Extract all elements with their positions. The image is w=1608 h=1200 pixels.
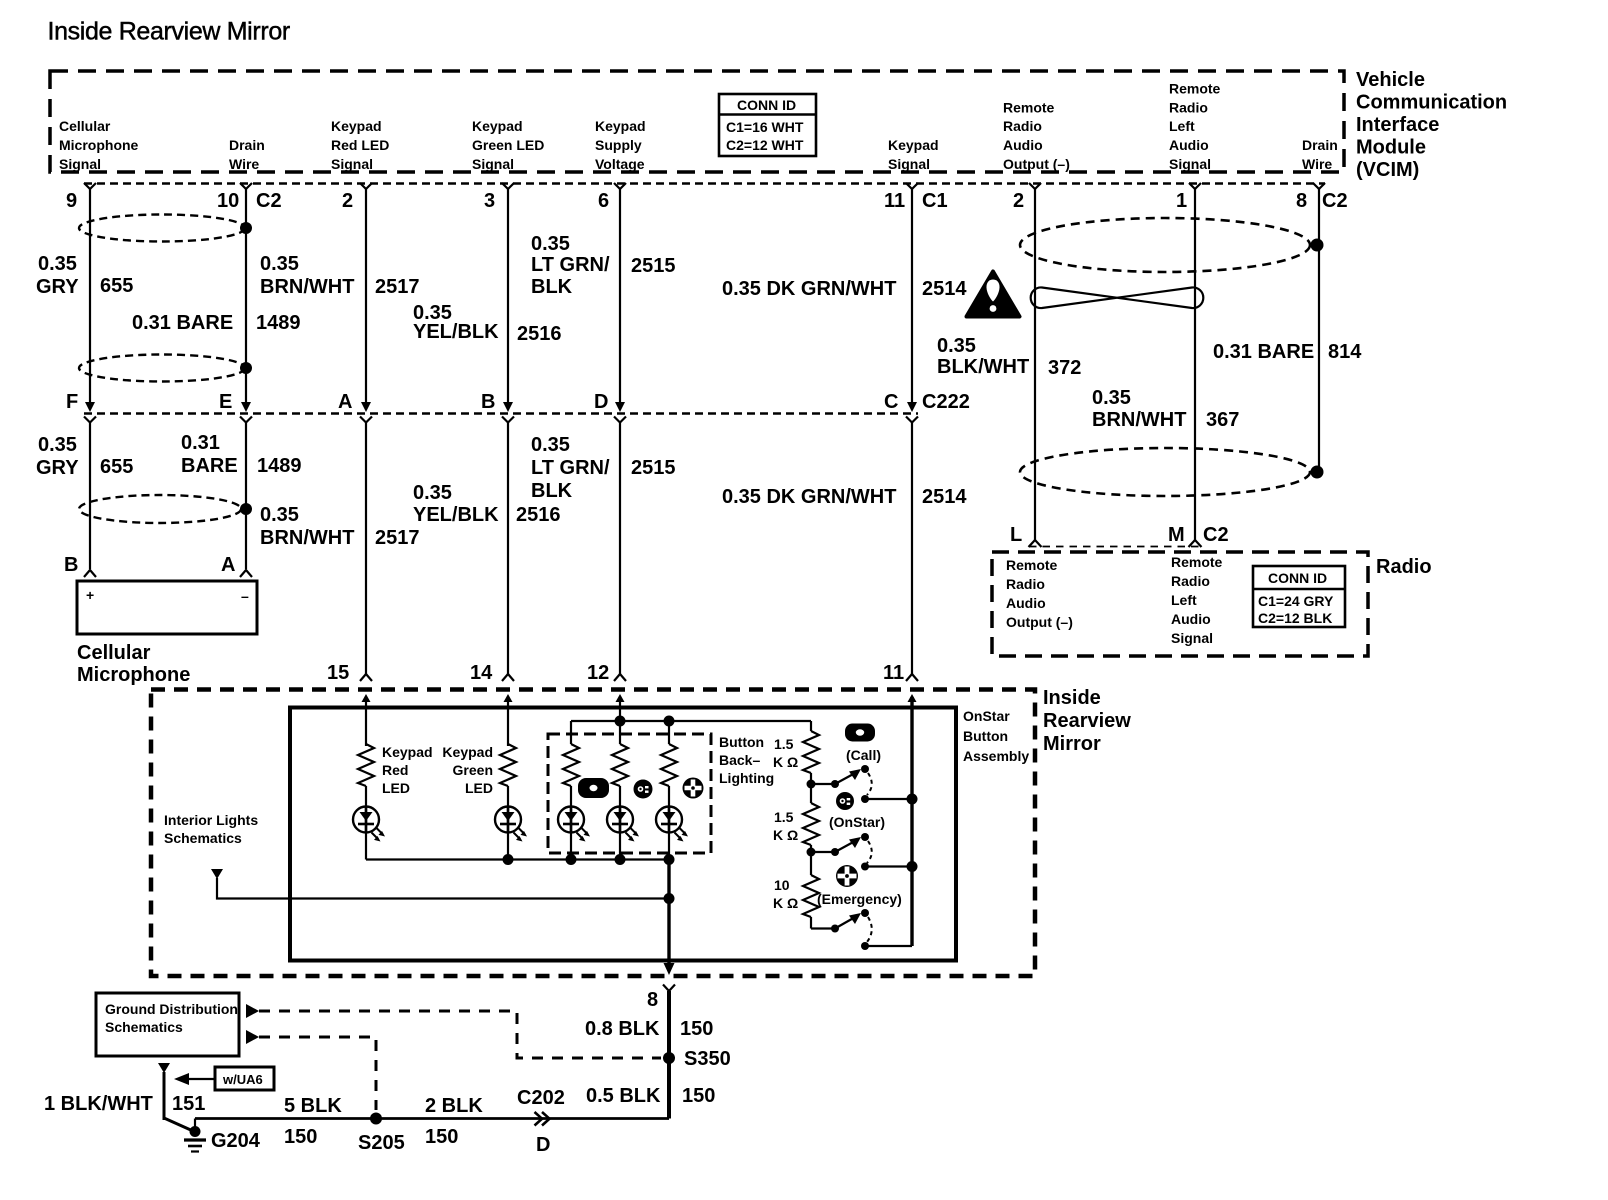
junction dot (807, 848, 816, 857)
svg-text:150: 150 (425, 1126, 458, 1148)
connector C202 (535, 1112, 550, 1126)
interior lights wire (217, 878, 669, 899)
svg-text:Inside Rearview Mirror: Inside Rearview Mirror (48, 18, 290, 46)
svg-text:Audio: Audio (1006, 595, 1046, 611)
IRM pin row (327, 662, 904, 684)
switch call (811, 765, 918, 805)
resistor backlight 3 (661, 744, 677, 786)
VCIM label Vehicle Communication Interface Module (1356, 69, 1507, 181)
svg-text:Keypad: Keypad (442, 744, 493, 760)
Interior Lights Schematics label (164, 812, 258, 846)
svg-text:Remote: Remote (1003, 100, 1055, 116)
C222 in-line connector dashed line (84, 412, 918, 415)
svg-text:2514: 2514 (922, 486, 967, 508)
svg-text:BLK: BLK (531, 480, 573, 502)
resistor chain 1.5K top (803, 731, 819, 773)
svg-text:Lighting: Lighting (719, 770, 774, 786)
svg-text:CONN ID: CONN ID (737, 97, 796, 113)
svg-text:Red LED: Red LED (331, 137, 389, 153)
svg-text:w/UA6: w/UA6 (222, 1072, 263, 1087)
drain junction dot pin8 (1311, 239, 1324, 252)
svg-text:Mirror: Mirror (1043, 733, 1101, 755)
svg-text:2517: 2517 (375, 276, 420, 298)
svg-text:Signal: Signal (888, 156, 930, 172)
svg-text:Communication: Communication (1356, 92, 1507, 114)
svg-text:(Emergency): (Emergency) (817, 891, 902, 907)
OnStar Button Assembly label (963, 708, 1029, 764)
svg-text:B: B (64, 554, 78, 576)
dashed ref line 2 to S205 (259, 1037, 376, 1110)
mic terminal letters (64, 554, 235, 576)
svg-text:Schematics: Schematics (164, 830, 242, 846)
svg-text:150: 150 (284, 1126, 317, 1148)
svg-text:–: – (241, 588, 249, 604)
svg-text:150: 150 (680, 1018, 713, 1040)
wire 2515 lower (619, 423, 621, 675)
svg-text:L: L (1010, 524, 1022, 546)
svg-text:BLK/WHT: BLK/WHT (937, 356, 1029, 378)
LED backlight 3 (668, 786, 670, 859)
interior lights tap arrow (211, 869, 223, 879)
svg-text:G204: G204 (211, 1130, 261, 1152)
svg-text:Schematics: Schematics (105, 1019, 183, 1035)
wire 2514 pin11 upper (911, 189, 913, 404)
svg-text:2516: 2516 (517, 323, 562, 345)
svg-text:1489: 1489 (257, 455, 302, 477)
wire 1489 drain pin10 upper (245, 189, 247, 404)
svg-text:9: 9 (66, 190, 77, 212)
svg-text:Button: Button (719, 734, 764, 750)
shield ellipse upper right (1020, 218, 1310, 272)
svg-text:(Call): (Call) (846, 747, 881, 763)
C222 forks below (84, 417, 918, 423)
C222 terminal letters (66, 391, 970, 413)
wire 367 pin1 (1194, 189, 1196, 540)
resistor backlight 1 (563, 744, 579, 786)
exit arrowhead (664, 963, 675, 975)
call button icon (845, 724, 875, 742)
radio pin labels (1006, 554, 1223, 646)
svg-text:LT GRN/: LT GRN/ (531, 254, 610, 276)
svg-text:Radio: Radio (1006, 576, 1045, 592)
switch onstar (811, 833, 918, 872)
wire 2517 pin2 upper (365, 189, 367, 404)
svg-text:Left: Left (1171, 592, 1197, 608)
svg-text:Microphone: Microphone (77, 664, 190, 686)
backlight icon emergency (683, 778, 704, 799)
svg-text:Interior Lights: Interior Lights (164, 812, 258, 828)
svg-text:LT GRN/: LT GRN/ (531, 457, 610, 479)
dashed ref line 1 to S350 (259, 1011, 661, 1058)
svg-text:Wire: Wire (1302, 156, 1332, 172)
svg-text:14: 14 (470, 662, 493, 684)
svg-text:150: 150 (682, 1085, 715, 1107)
mic terminal forks (84, 570, 252, 577)
svg-text:(VCIM): (VCIM) (1356, 159, 1419, 181)
LED keypad green (507, 786, 509, 833)
svg-text:Back–: Back– (719, 752, 760, 768)
w/UA6 tag (174, 1067, 274, 1090)
wire 655 lower (89, 423, 91, 570)
svg-text:C202: C202 (517, 1087, 565, 1109)
svg-text:Drain: Drain (229, 137, 265, 153)
svg-text:Assembly: Assembly (963, 748, 1029, 764)
svg-text:2514: 2514 (922, 278, 967, 300)
wire 1489 lower (245, 423, 247, 570)
wire 15 stub (365, 697, 367, 746)
Keypad Green LED label (442, 744, 493, 796)
backlight icon onstar (634, 780, 653, 799)
svg-text:2 BLK: 2 BLK (425, 1095, 483, 1117)
VCIM pin function labels (59, 81, 1338, 173)
entry arrowheads inside IRM (362, 694, 917, 702)
cellular microphone box (77, 581, 257, 634)
wire 2514 lower (911, 423, 913, 675)
svg-text:Remote: Remote (1171, 554, 1223, 570)
svg-text:367: 367 (1206, 409, 1239, 431)
svg-text:CONN ID: CONN ID (1268, 570, 1327, 586)
VCIM connector dashed line (84, 182, 1325, 185)
svg-text:Green: Green (453, 762, 493, 778)
connector forks at VCIM pins (84, 183, 1325, 189)
ground distribution box (96, 993, 239, 1056)
svg-text:8: 8 (647, 989, 658, 1011)
svg-text:15: 15 (327, 662, 349, 684)
svg-text:BARE: BARE (181, 455, 238, 477)
wire 2515 pin6 upper (619, 189, 621, 404)
svg-text:655: 655 (100, 456, 133, 478)
resistor keypad red (358, 744, 374, 786)
wire 655 pin9 upper (89, 189, 91, 404)
radio terminal letters (1010, 524, 1229, 546)
svg-text:C1=24 GRY: C1=24 GRY (1258, 593, 1334, 609)
svg-text:151: 151 (172, 1093, 205, 1115)
junction dot (664, 893, 675, 904)
svg-text:10: 10 (217, 190, 239, 212)
svg-text:0.8 BLK: 0.8 BLK (585, 1018, 660, 1040)
svg-text:0.35 DK GRN/WHT: 0.35 DK GRN/WHT (722, 278, 896, 300)
wire 12 stub (619, 697, 621, 721)
svg-text:Cellular: Cellular (77, 642, 151, 664)
svg-text:Voltage: Voltage (595, 156, 645, 172)
svg-text:Keypad: Keypad (888, 137, 939, 153)
svg-text:Remote: Remote (1006, 557, 1058, 573)
drain junction dot lower (240, 503, 252, 515)
svg-text:Vehicle: Vehicle (1356, 69, 1425, 91)
svg-text:D: D (536, 1134, 550, 1156)
svg-text:GRY: GRY (36, 276, 79, 298)
svg-text:Left: Left (1169, 118, 1195, 134)
shield ellipse upper left (79, 215, 245, 242)
resistor keypad green (500, 744, 516, 786)
svg-text:0.35: 0.35 (38, 434, 77, 456)
svg-text:0.5 BLK: 0.5 BLK (586, 1085, 661, 1107)
wire 14 stub (507, 697, 509, 746)
svg-text:E: E (219, 391, 232, 413)
svg-text:Interface: Interface (1356, 114, 1439, 136)
svg-text:0.35: 0.35 (531, 233, 570, 255)
svg-text:Keypad: Keypad (472, 118, 523, 134)
svg-text:Radio: Radio (1376, 556, 1432, 578)
svg-text:A: A (338, 391, 352, 413)
svg-text:A: A (221, 554, 235, 576)
svg-text:LED: LED (382, 780, 410, 796)
svg-text:Signal: Signal (1171, 630, 1213, 646)
drain junction dot (240, 362, 252, 374)
svg-text:1489: 1489 (256, 312, 301, 334)
Button Back-Lighting dashed box (548, 734, 711, 853)
svg-text:11: 11 (883, 662, 904, 684)
svg-text:12: 12 (587, 662, 609, 684)
svg-text:BLK: BLK (531, 276, 573, 298)
ground bus line (195, 1117, 669, 1120)
svg-text:C222: C222 (922, 391, 970, 413)
svg-text:0.31: 0.31 (181, 432, 220, 454)
LED backlight 2 (619, 786, 621, 859)
lower section wire labels (36, 432, 967, 549)
wire 372 pin2 C1 (1034, 189, 1036, 540)
inner solid box (290, 708, 956, 961)
Keypad Red LED label (382, 744, 433, 796)
svg-text:Module: Module (1356, 137, 1426, 159)
svg-text:C1: C1 (922, 190, 948, 212)
svg-text:Wire: Wire (229, 156, 259, 172)
svg-text:C: C (884, 391, 898, 413)
emergency button icon (836, 865, 858, 887)
svg-text:5 BLK: 5 BLK (284, 1095, 342, 1117)
svg-text:Inside: Inside (1043, 687, 1101, 709)
drain junction dot pin8 lower (1311, 466, 1324, 479)
svg-text:Button: Button (963, 728, 1008, 744)
upper section wire labels (36, 233, 1362, 431)
svg-text:D: D (594, 391, 608, 413)
svg-text:655: 655 (100, 275, 133, 297)
svg-text:Ground Distribution: Ground Distribution (105, 1001, 238, 1017)
wire 150 to S350 (667, 991, 671, 1119)
svg-text:Audio: Audio (1169, 137, 1209, 153)
radio dashed box (992, 552, 1368, 656)
svg-text:0.35: 0.35 (413, 482, 452, 504)
CONN ID table (VCIM) (719, 94, 816, 156)
svg-text:YEL/BLK: YEL/BLK (413, 321, 499, 343)
svg-text:2517: 2517 (375, 527, 420, 549)
C222 arrowheads (85, 402, 917, 412)
IRM label (1043, 687, 1131, 755)
svg-text:YEL/BLK: YEL/BLK (413, 504, 499, 526)
LED keypad red (365, 786, 367, 833)
backlight feed line (571, 720, 811, 722)
svg-text:0.35: 0.35 (260, 253, 299, 275)
LED backlight 1 (570, 786, 572, 859)
LED common return line (366, 858, 669, 860)
resistor chain 10K bottom (810, 852, 812, 875)
svg-text:2516: 2516 (516, 504, 561, 526)
radio connector dashed line (1029, 546, 1201, 548)
shield ellipse mid left (79, 355, 245, 382)
svg-text:LED: LED (465, 780, 493, 796)
svg-text:11: 11 (884, 190, 905, 212)
svg-text:Supply: Supply (595, 137, 642, 153)
onstar button icon (836, 792, 854, 810)
svg-text:2515: 2515 (631, 457, 676, 479)
Button Back-Lighting label (719, 734, 774, 786)
junction dot (807, 780, 816, 789)
svg-text:Signal: Signal (1169, 156, 1211, 172)
VCIM module dashed box (50, 71, 1344, 172)
ground wire 150 inside IRM (667, 860, 670, 965)
svg-text:K Ω: K Ω (773, 754, 798, 770)
switch emergency (811, 909, 912, 950)
ground G204 (164, 1118, 206, 1152)
svg-text:2515: 2515 (631, 255, 676, 277)
wire 2516 pin3 upper (507, 189, 509, 404)
splice S350 (663, 1052, 675, 1064)
svg-text:0.31 BARE: 0.31 BARE (132, 312, 233, 334)
svg-text:OnStar: OnStar (963, 708, 1010, 724)
svg-text:Radio: Radio (1169, 100, 1208, 116)
svg-text:8: 8 (1296, 190, 1307, 212)
svg-text:GRY: GRY (36, 457, 79, 479)
ground lead arrow (158, 1063, 170, 1073)
junction dot backlight3 (664, 716, 675, 727)
warning triangle (967, 272, 1020, 317)
svg-text:0.35: 0.35 (260, 504, 299, 526)
shield ellipse lower left (79, 495, 241, 523)
svg-text:Green LED: Green LED (472, 137, 544, 153)
svg-text:0.35: 0.35 (937, 335, 976, 357)
svg-text:0.31 BARE: 0.31 BARE (1213, 341, 1314, 363)
svg-text:Drain: Drain (1302, 137, 1338, 153)
backlight icon call (578, 778, 609, 798)
svg-text:Signal: Signal (331, 156, 373, 172)
svg-text:0.35 DK GRN/WHT: 0.35 DK GRN/WHT (722, 486, 896, 508)
svg-text:Radio: Radio (1171, 573, 1210, 589)
ref arrow 1 (246, 1004, 259, 1018)
svg-text:Keypad: Keypad (382, 744, 433, 760)
svg-text:Keypad: Keypad (331, 118, 382, 134)
wire 814 drain pin8 (1318, 189, 1320, 472)
svg-text:C2: C2 (1203, 524, 1229, 546)
svg-text:1.5: 1.5 (774, 809, 794, 825)
svg-text:2: 2 (1013, 190, 1024, 212)
junction dots on return line (503, 854, 514, 865)
wire 2517 lower (365, 423, 367, 675)
Inside Rearview Mirror dashed box (151, 690, 1035, 977)
svg-text:C2: C2 (1322, 190, 1348, 212)
wire 11 bus (910, 697, 913, 946)
ref arrow 2 (246, 1030, 259, 1044)
svg-text:+: + (86, 587, 94, 603)
IRM connector forks (inverted) (360, 674, 918, 681)
connector fork below IRM (663, 985, 675, 992)
svg-text:(OnStar): (OnStar) (829, 814, 885, 830)
svg-text:10: 10 (774, 877, 790, 893)
shield ellipse lower right (1020, 448, 1310, 496)
svg-text:0.35: 0.35 (38, 253, 77, 275)
svg-text:C2=12 BLK: C2=12 BLK (1258, 610, 1332, 626)
drain junction dot (240, 222, 252, 234)
svg-text:C2: C2 (256, 190, 282, 212)
svg-text:Output (–): Output (–) (1003, 156, 1070, 172)
svg-text:Microphone: Microphone (59, 137, 139, 153)
resistor backlight 2 (612, 744, 628, 786)
resistor chain 1.5K mid (810, 784, 812, 803)
svg-text:Rearview: Rearview (1043, 710, 1131, 732)
svg-text:K Ω: K Ω (773, 895, 798, 911)
svg-text:0.35: 0.35 (531, 434, 570, 456)
svg-text:3: 3 (484, 190, 495, 212)
svg-text:6: 6 (598, 190, 609, 212)
svg-text:1 BLK/WHT: 1 BLK/WHT (44, 1093, 153, 1115)
svg-text:BRN/WHT: BRN/WHT (260, 527, 354, 549)
svg-text:F: F (66, 391, 78, 413)
svg-text:Audio: Audio (1003, 137, 1043, 153)
pin row labels (66, 190, 1348, 212)
splice S205 (370, 1113, 382, 1125)
svg-text:Radio: Radio (1003, 118, 1042, 134)
svg-text:1: 1 (1176, 190, 1187, 212)
svg-text:BRN/WHT: BRN/WHT (1092, 409, 1186, 431)
svg-text:814: 814 (1328, 341, 1362, 363)
svg-text:BRN/WHT: BRN/WHT (260, 276, 354, 298)
svg-text:M: M (1168, 524, 1185, 546)
svg-text:Cellular: Cellular (59, 118, 111, 134)
twisted pair symbol (1031, 287, 1204, 308)
svg-text:Signal: Signal (59, 156, 101, 172)
svg-text:Red: Red (382, 762, 408, 778)
CONN ID table (radio) (1253, 566, 1345, 627)
svg-text:Output (–): Output (–) (1006, 614, 1073, 630)
radio connector forks (1029, 540, 1202, 547)
svg-text:C2=12 WHT: C2=12 WHT (726, 137, 804, 153)
svg-text:1.5: 1.5 (774, 736, 794, 752)
svg-text:S350: S350 (684, 1048, 731, 1070)
svg-text:Keypad: Keypad (595, 118, 646, 134)
svg-text:372: 372 (1048, 357, 1081, 379)
svg-text:S205: S205 (358, 1132, 405, 1154)
wire 151 (163, 1072, 166, 1120)
svg-text:C1=16 WHT: C1=16 WHT (726, 119, 804, 135)
cellular microphone label (77, 642, 190, 686)
svg-text:0.35: 0.35 (1092, 387, 1131, 409)
svg-text:K Ω: K Ω (773, 827, 798, 843)
svg-text:Remote: Remote (1169, 81, 1221, 97)
svg-text:2: 2 (342, 190, 353, 212)
junction dot wire12 (615, 716, 626, 727)
wire 2516 lower (507, 423, 509, 675)
svg-text:Audio: Audio (1171, 611, 1211, 627)
svg-text:B: B (481, 391, 495, 413)
svg-text:Signal: Signal (472, 156, 514, 172)
